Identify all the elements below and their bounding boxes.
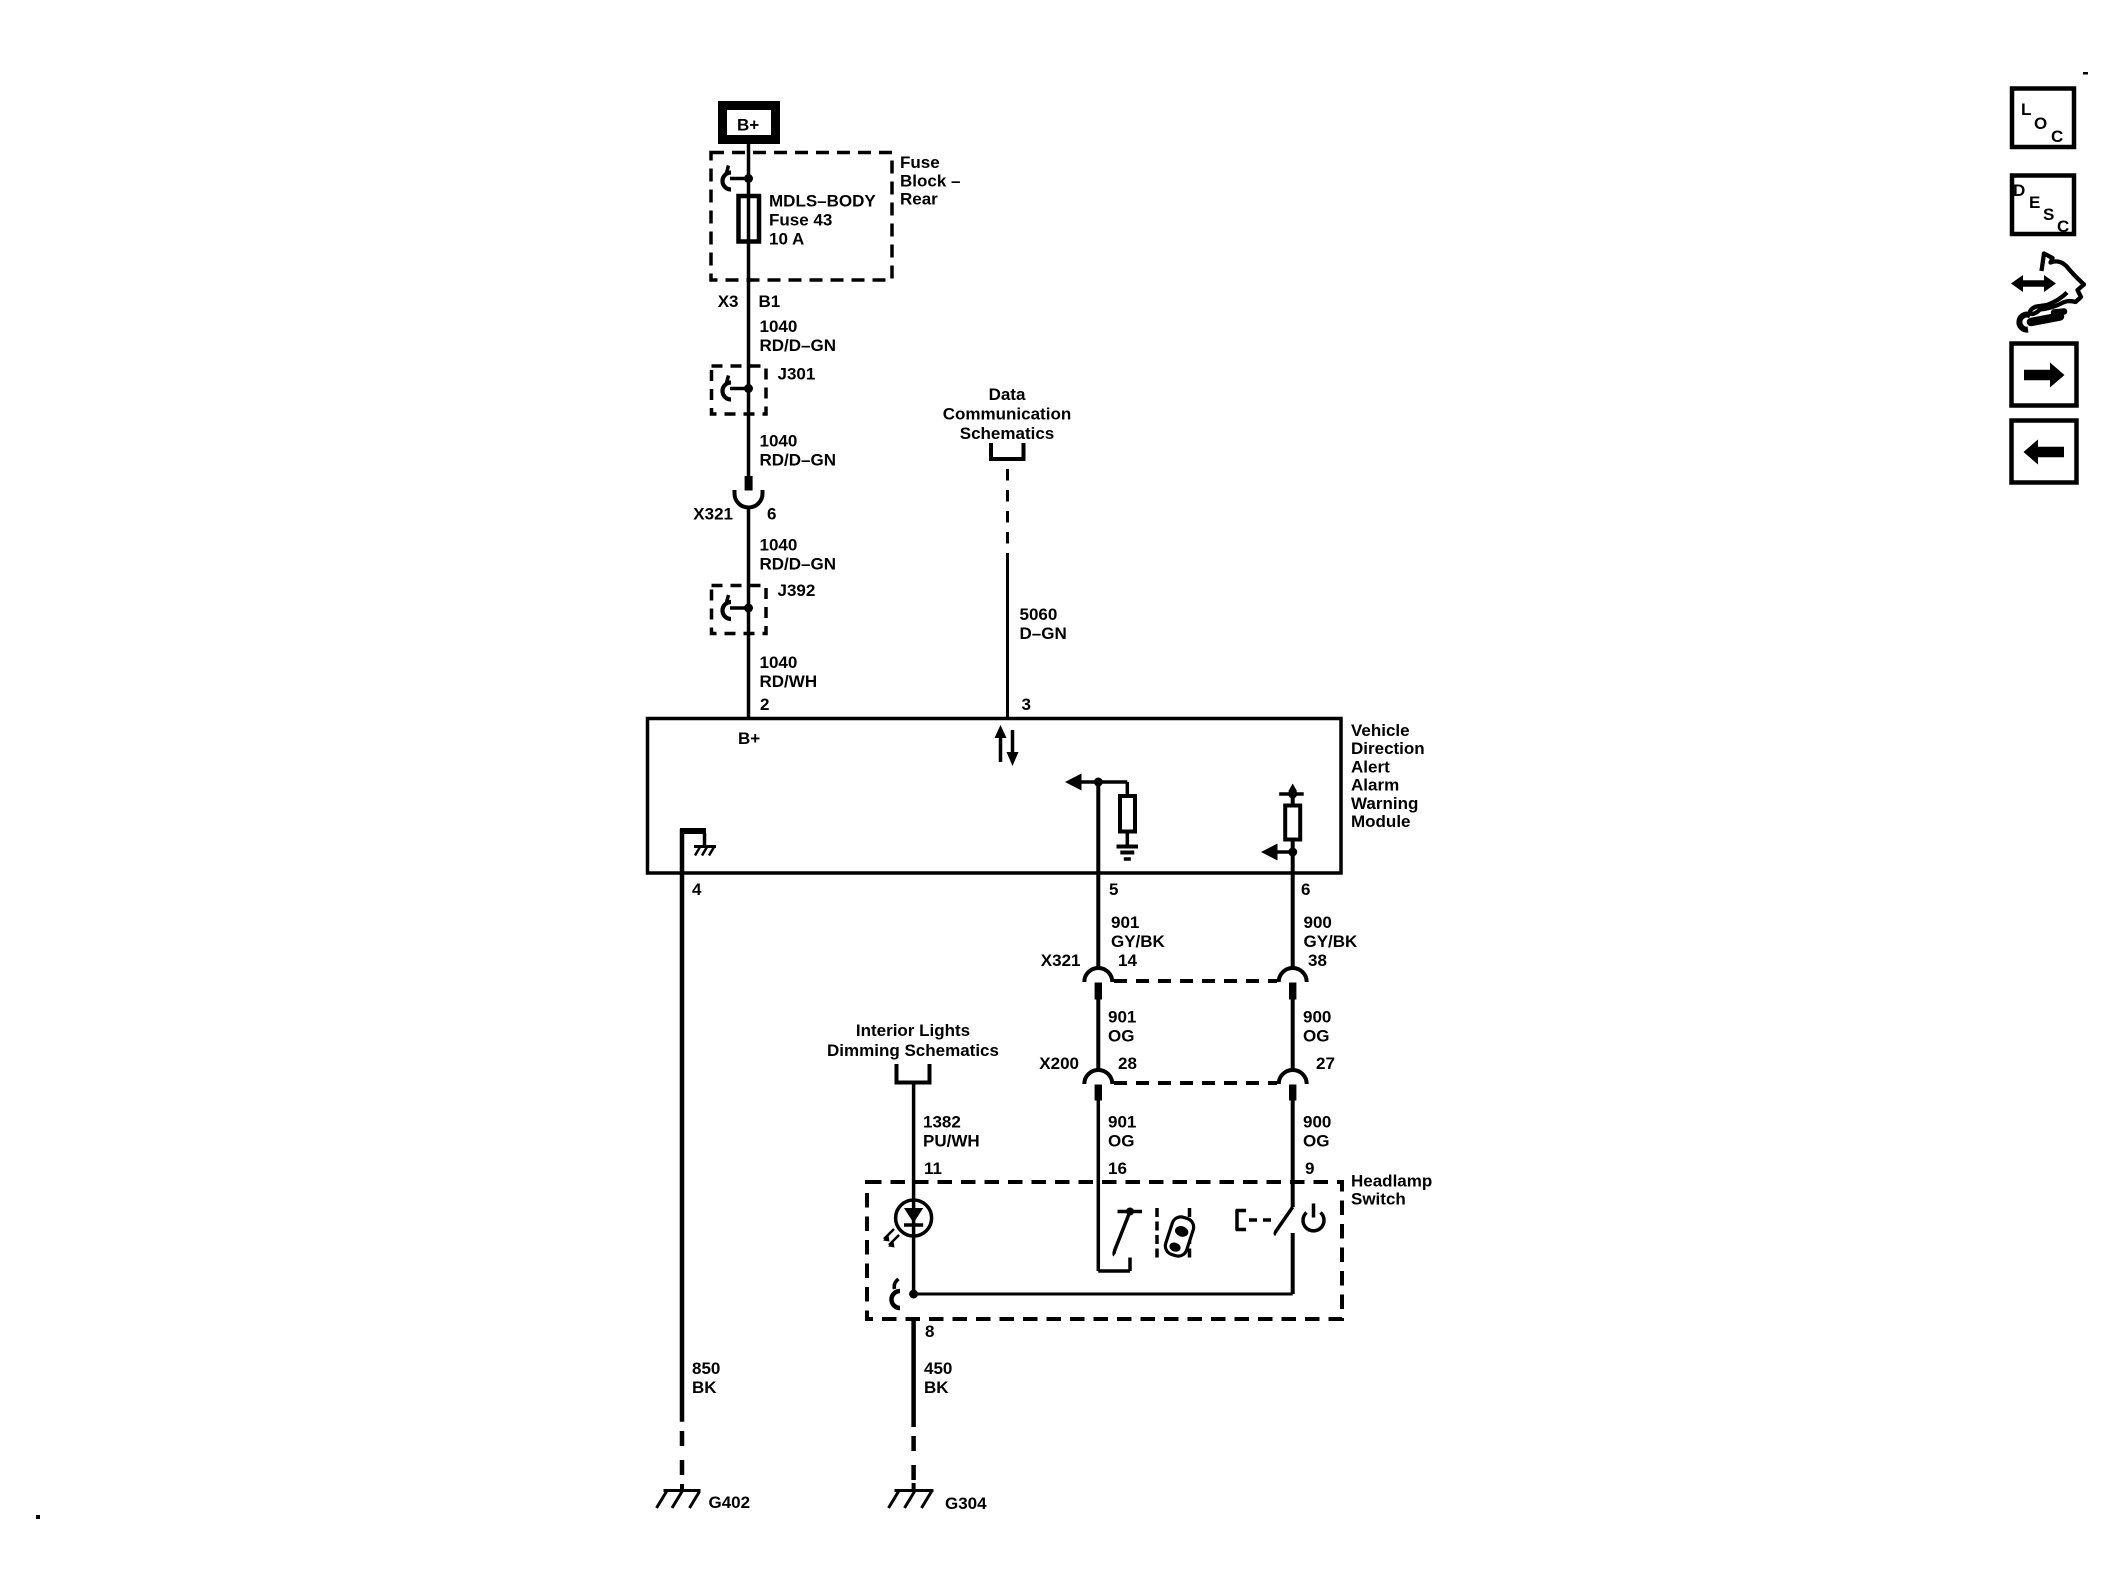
connector X321 pin 6 (inline connector) <box>735 476 763 508</box>
svg-text:6: 6 <box>767 505 776 524</box>
speck top right <box>2083 72 2088 75</box>
ground (IEC) under R1 <box>1117 847 1139 860</box>
svg-text:D–GN: D–GN <box>1020 624 1067 643</box>
node B+ (battery feed symbol) <box>723 106 776 140</box>
svg-text:OG: OG <box>1108 1027 1134 1046</box>
svg-text:5: 5 <box>1109 880 1118 899</box>
svg-text:Vehicle: Vehicle <box>1351 721 1410 740</box>
svg-text:J301: J301 <box>778 365 816 384</box>
junction dot J301 <box>744 384 753 393</box>
svg-text:X321: X321 <box>693 505 733 524</box>
wire 5060 D-GN to module pin 3 <box>1006 561 1009 719</box>
svg-text:Headlamp: Headlamp <box>1351 1172 1432 1191</box>
svg-text:Rear: Rear <box>900 190 938 209</box>
label Fuse Block - Rear <box>900 153 960 209</box>
svg-text:X3: X3 <box>718 292 739 311</box>
module U1 Vehicle Direction Alert Alarm Warning Module <box>648 719 1342 874</box>
pin label X3 B1 <box>718 292 781 311</box>
svg-text:B+: B+ <box>738 729 760 748</box>
svg-text:Data: Data <box>989 385 1026 404</box>
wire label 900 OG <box>1303 1113 1331 1151</box>
svg-text:1040: 1040 <box>760 653 798 672</box>
svg-text:28: 28 <box>1118 1054 1137 1073</box>
svg-text:900: 900 <box>1304 913 1332 932</box>
connector X200 pin 27 <box>1279 1070 1307 1101</box>
svg-text:Interior Lights: Interior Lights <box>856 1021 970 1040</box>
svg-text:1382: 1382 <box>923 1113 961 1132</box>
wire label 900 OG <box>1303 1008 1331 1046</box>
resistor R2 branch (pin 6) <box>1279 784 1304 840</box>
wire label 900 GY/BK <box>1304 913 1359 951</box>
dimmer rheostat contact (pin 16 branch) <box>1098 1182 1142 1271</box>
connector X321 pin 38 <box>1279 968 1307 999</box>
svg-text:L: L <box>2021 100 2031 119</box>
wire 901 OG to pin 16 <box>1097 1101 1101 1183</box>
svg-text:27: 27 <box>1316 1054 1335 1073</box>
connector X321 pin 14 <box>1084 968 1112 999</box>
ground G402 <box>657 1484 751 1512</box>
svg-text:1040: 1040 <box>760 432 798 451</box>
harness link (dashed) X200 <box>1114 1081 1277 1085</box>
svg-text:RD/D–GN: RD/D–GN <box>760 451 837 470</box>
pin label X200 28 27 <box>1039 1054 1335 1073</box>
svg-text:J392: J392 <box>778 581 816 600</box>
svg-text:Module: Module <box>1351 812 1411 831</box>
svg-text:MDLS–BODY: MDLS–BODY <box>769 192 876 211</box>
svg-text:B+: B+ <box>737 116 759 135</box>
svg-text:38: 38 <box>1308 951 1327 970</box>
svg-text:900: 900 <box>1303 1008 1331 1027</box>
svg-text:O: O <box>2034 114 2047 133</box>
speck bottom left <box>36 1515 40 1519</box>
svg-text:G304: G304 <box>945 1494 987 1513</box>
junction dot at lamp return <box>909 1290 918 1299</box>
svg-text:C: C <box>2051 127 2063 146</box>
svg-text:GY/BK: GY/BK <box>1111 932 1166 951</box>
junction dot pin5 branch <box>1094 778 1103 787</box>
svg-text:4: 4 <box>692 880 702 899</box>
svg-text:14: 14 <box>1118 951 1137 970</box>
sidebar icon schematic-navigation (sketch with arrows and wrench) <box>2011 254 2084 330</box>
wire 1382 PU/WH to headlamp switch pin 11 <box>912 1085 916 1183</box>
svg-text:G402: G402 <box>709 1493 751 1512</box>
label Vehicle Direction Alert Alarm Warning Module <box>1351 721 1425 831</box>
wire from X321-6 to module pin 2 <box>747 508 751 719</box>
sidebar icon previous (left arrow) <box>2012 421 2077 483</box>
fuse clip symbol <box>723 166 747 190</box>
svg-text:OG: OG <box>1303 1027 1329 1046</box>
svg-text:PU/WH: PU/WH <box>923 1132 980 1151</box>
fuse MDLS-BODY Fuse 43 10A <box>739 196 760 242</box>
svg-text:9: 9 <box>1305 1159 1314 1178</box>
connector X200 pin 28 <box>1084 1070 1112 1101</box>
junction dot J392 <box>744 604 753 613</box>
splice J301 (dashed box) <box>712 366 767 414</box>
svg-text:RD/WH: RD/WH <box>760 672 818 691</box>
svg-text:Direction: Direction <box>1351 739 1425 758</box>
svg-text:11: 11 <box>924 1159 942 1178</box>
wire 900 OG to pin 9 <box>1291 1101 1295 1208</box>
svg-text:BK: BK <box>924 1378 949 1397</box>
wire label 1382 PU/WH <box>923 1113 980 1151</box>
wire label 901 OG <box>1108 1113 1136 1151</box>
svg-text:2: 2 <box>760 695 769 714</box>
wire label 901 OG <box>1108 1008 1136 1046</box>
wire label 1040 RD/WH <box>760 653 818 691</box>
svg-text:8: 8 <box>925 1322 934 1341</box>
svg-text:1040: 1040 <box>760 536 798 555</box>
Fuse Block - Rear (dashed enclosure) <box>711 153 892 281</box>
svg-text:Alert: Alert <box>1351 757 1390 776</box>
internal left-arrow at pin 6 <box>1261 844 1297 861</box>
svg-text:RD/D–GN: RD/D–GN <box>760 555 837 574</box>
pin label X321 6 <box>693 505 776 524</box>
svg-text:Fuse: Fuse <box>900 153 940 172</box>
junction dot at fuse clip <box>744 174 753 183</box>
svg-text:901: 901 <box>1111 913 1139 932</box>
car icon with lane markers <box>1157 1208 1196 1258</box>
svg-text:OG: OG <box>1108 1132 1134 1151</box>
svg-text:5060: 5060 <box>1020 605 1058 624</box>
svg-text:Dimming Schematics: Dimming Schematics <box>827 1041 999 1060</box>
svg-text:RD/D–GN: RD/D–GN <box>760 336 837 355</box>
svg-text:450: 450 <box>924 1359 952 1378</box>
wire (dashed) from off-page reference <box>1006 469 1009 561</box>
splice clip J392 <box>723 595 747 619</box>
svg-text:901: 901 <box>1108 1113 1136 1132</box>
svg-text:Block –: Block – <box>900 172 960 191</box>
node Data Communication Schematics (off-page reference) <box>943 385 1071 459</box>
label Headlamp Switch <box>1351 1172 1432 1209</box>
svg-text:3: 3 <box>1022 695 1031 714</box>
harness link (dashed) X321 <box>1114 979 1277 983</box>
svg-text:1040: 1040 <box>760 317 798 336</box>
sidebar icon next (right arrow) <box>2012 344 2077 406</box>
svg-text:6: 6 <box>1301 880 1310 899</box>
wire label 1040 RD/D-GN <box>760 317 837 355</box>
up/down data arrows inside module <box>995 725 1019 766</box>
svg-text:900: 900 <box>1303 1113 1331 1132</box>
svg-text:Warning: Warning <box>1351 794 1418 813</box>
svg-text:C: C <box>2057 217 2069 236</box>
wire pin 5 down to X321-14 <box>1096 782 1100 967</box>
internal left-arrow output (pin 5 branch) <box>1065 774 1127 791</box>
splice J392 (dashed box) <box>712 586 767 634</box>
svg-text:OG: OG <box>1303 1132 1329 1151</box>
wire pin 6 down to X321-38 <box>1291 840 1295 968</box>
svg-text:Communication: Communication <box>943 405 1071 424</box>
wire label 5060 D-GN <box>1020 605 1067 643</box>
wire pin 11 through lamp to junction <box>912 1182 916 1294</box>
ground G304 <box>889 1483 988 1513</box>
wire label 450 BK <box>924 1359 952 1397</box>
wire 900 OG between connectors <box>1291 1000 1295 1070</box>
value label MDLS-BODY Fuse 43 10 A <box>769 192 876 249</box>
wire B+ feed down through Fuse Block to J301 <box>747 144 751 476</box>
wire label 1040 RD/D-GN <box>760 536 837 574</box>
svg-text:GY/BK: GY/BK <box>1304 932 1359 951</box>
svg-text:16: 16 <box>1108 1159 1127 1178</box>
svg-text:Alarm: Alarm <box>1351 776 1399 795</box>
wire 901 OG between connectors <box>1096 1000 1100 1070</box>
node Interior Lights Dimming Schematics (off-page reference) <box>827 1021 999 1083</box>
svg-text:Schematics: Schematics <box>960 424 1055 443</box>
svg-text:S: S <box>2043 205 2054 224</box>
wire label 901 GY/BK <box>1111 913 1166 951</box>
wire lamp return to switch contact <box>914 1293 1293 1296</box>
wire 450 BK to G304 <box>911 1319 916 1427</box>
wire label 1040 RD/D-GN <box>760 432 837 470</box>
svg-text:E: E <box>2029 193 2040 212</box>
pin label X321 14 38 <box>1041 951 1327 970</box>
splice clip inside switch <box>892 1279 901 1308</box>
internal ground of module (pin 4) <box>680 829 716 873</box>
resistor R1 (pull-up inside module) <box>1120 782 1135 846</box>
splice clip J301 <box>723 376 747 400</box>
wire label 850 BK <box>692 1359 720 1397</box>
switch S1 Headlamp Switch (dashed enclosure) <box>867 1182 1342 1319</box>
headlamp switch contact (pin 9) <box>1236 1207 1293 1235</box>
svg-text:B1: B1 <box>759 292 781 311</box>
svg-text:BK: BK <box>692 1378 717 1397</box>
wire pin 4 down to G402 <box>680 873 685 1422</box>
svg-text:X200: X200 <box>1039 1054 1079 1073</box>
svg-text:D: D <box>2013 181 2025 200</box>
svg-text:X321: X321 <box>1041 951 1081 970</box>
sidebar icon DESC <box>2012 176 2074 237</box>
svg-text:10 A: 10 A <box>769 230 804 249</box>
svg-text:Switch: Switch <box>1351 1190 1406 1209</box>
lamp DS1 (illumination LED) <box>883 1200 932 1248</box>
svg-text:850: 850 <box>692 1359 720 1378</box>
power symbol <box>1303 1204 1324 1231</box>
svg-text:901: 901 <box>1108 1008 1136 1027</box>
sidebar icon LOC <box>2012 89 2074 148</box>
svg-text:Fuse 43: Fuse 43 <box>769 211 832 230</box>
